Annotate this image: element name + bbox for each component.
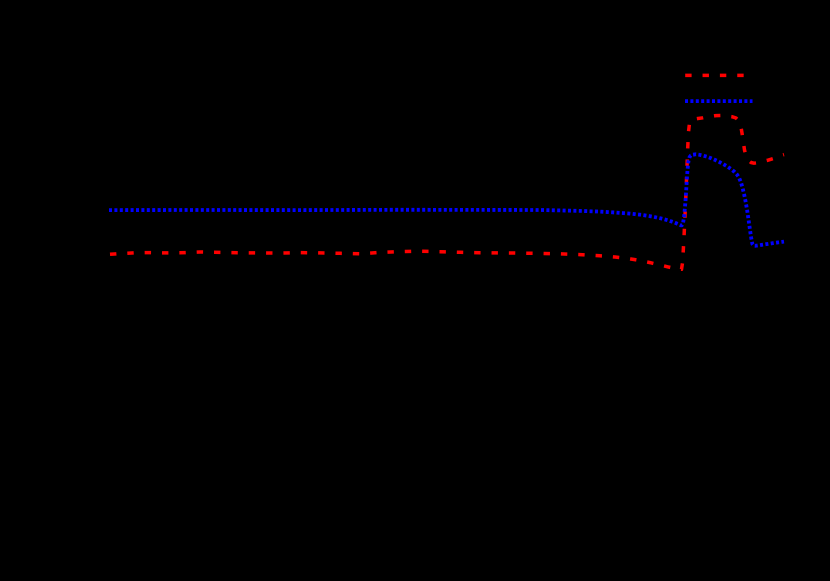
blue dotted curve series 2 — [109, 154, 784, 246]
legend red dashed sample — [685, 74, 752, 78]
red dashed curve series 1 — [110, 116, 784, 270]
legend blue dotted sample — [685, 99, 753, 103]
